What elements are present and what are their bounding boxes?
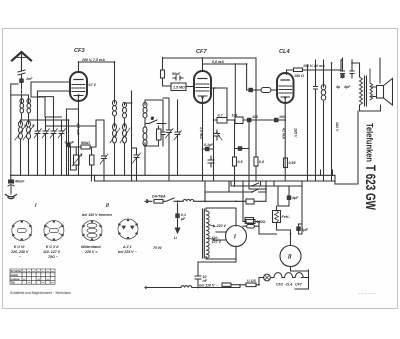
transformer top lead <box>206 208 236 226</box>
resistor U1/5 <box>240 278 264 287</box>
resistor 1k vertical <box>161 58 172 87</box>
svg-text:220 V =: 220 V = <box>84 250 98 254</box>
wire <box>211 88 227 181</box>
wire output stage <box>360 110 381 112</box>
tube CF7 <box>194 71 211 103</box>
svg-text:5μF: 5μF <box>302 228 309 232</box>
fuse <box>154 200 163 204</box>
socket I EUVI circle <box>12 221 32 241</box>
svg-text:185 V: 185 V <box>294 128 298 138</box>
transformer bottom lead <box>206 246 236 259</box>
svg-text:4,5 mA: 4,5 mA <box>76 122 80 135</box>
transformer tap 220V <box>209 225 216 228</box>
variable coil L3 <box>15 121 26 175</box>
resistor 150 box LSQ <box>246 220 255 224</box>
wire CF3 anode to IFT1 <box>79 62 115 103</box>
capacitor 0.1uF node <box>67 128 70 175</box>
capacitor 0.1uF node <box>203 147 214 150</box>
trimmer capacitor C3 <box>50 120 58 175</box>
heater chain bumps <box>271 273 304 278</box>
svg-text:Schaltbild und Abgleichwerte ·: Schaltbild und Abgleichwerte · Telefunke… <box>10 291 71 295</box>
svg-text:10k: 10k <box>232 114 239 118</box>
resistor 1.5M <box>171 83 194 91</box>
resistor 0.5M vertical 2 <box>233 120 237 181</box>
IFT1 variable core coil B <box>120 122 130 175</box>
resistor 50k <box>69 145 97 149</box>
svg-text:4μF: 4μF <box>291 196 299 200</box>
svg-text:220–240 V: 220–240 V <box>10 250 29 254</box>
svg-text:220 V: 220 V <box>216 224 227 228</box>
mains choke <box>183 199 194 201</box>
arrow ground mains <box>175 228 179 233</box>
wire junction <box>96 120 104 148</box>
capacitor 50uF <box>173 76 183 80</box>
svg-text:70 W: 70 W <box>153 246 162 250</box>
resistor 1M box <box>245 218 254 224</box>
resistor 0.5M vertical <box>145 126 161 146</box>
trimmer capacitor C8 <box>174 120 182 175</box>
coil 0.1 <box>261 88 277 93</box>
svg-text:T 623 GW: T 623 GW <box>363 165 378 210</box>
svg-text:67 V: 67 V <box>89 83 97 87</box>
capacitor 1u <box>314 85 318 92</box>
wire <box>177 100 179 120</box>
svg-text:0,8 mA: 0,8 mA <box>212 60 224 64</box>
trimmer capacitor C11 <box>163 98 173 181</box>
socket Widerstand circle <box>82 221 102 241</box>
coil bottom <box>181 286 192 288</box>
svg-text:4μ: 4μ <box>335 85 341 89</box>
output transformer core <box>365 76 367 106</box>
svg-text:150 Ω: 150 Ω <box>294 74 304 78</box>
svg-text:II: II <box>288 255 292 261</box>
top rail B+ <box>163 57 257 59</box>
svg-text:1nF: 1nF <box>26 77 33 81</box>
svg-text:A Z 1: A Z 1 <box>122 245 132 249</box>
svg-text:0,55: 0,55 <box>289 161 297 165</box>
svg-text:1,5 MΩ: 1,5 MΩ <box>173 86 185 90</box>
svg-text:bei 150 V trennen: bei 150 V trennen <box>82 213 113 217</box>
antenna coil L1 <box>20 97 24 120</box>
electrolytic 40mF <box>8 175 14 194</box>
svg-text:200 V, 7,5 mA: 200 V, 7,5 mA <box>81 58 105 62</box>
dial lamp <box>259 274 270 281</box>
variable coil L4 <box>23 121 34 175</box>
wire CF3 grid <box>31 82 79 175</box>
wire <box>277 224 303 246</box>
mains switch <box>163 198 179 201</box>
socket AZ1 circle <box>118 219 138 239</box>
bei110V box <box>222 283 240 286</box>
output transformer secondary <box>370 69 373 100</box>
svg-text:CF7: CF7 <box>196 49 207 55</box>
svg-text:DA/TBA: DA/TBA <box>152 195 166 199</box>
svg-text:FeH₂: FeH₂ <box>282 215 291 219</box>
trimmer capacitor C9 <box>215 130 223 140</box>
svg-text:CF7: CF7 <box>295 283 303 287</box>
trimmer capacitor C5 <box>100 148 108 181</box>
IFT2 secondary coil <box>143 127 147 176</box>
svg-text:127 V: 127 V <box>212 240 222 244</box>
svg-text:Tfk: Tfk <box>11 281 16 285</box>
rectifier circle I <box>226 226 247 247</box>
trimmer capacitor C2 <box>42 117 50 175</box>
wire <box>352 60 360 71</box>
IFT1 primary coil <box>113 100 117 122</box>
svg-text:μF: μF <box>180 217 186 221</box>
power transformer core <box>203 209 205 258</box>
capacitor 4uF psu <box>287 190 290 206</box>
electrolytic 4uF b <box>350 71 354 78</box>
wire CF7 anode <box>203 58 247 117</box>
svg-text:181 V: 181 V <box>335 122 339 132</box>
svg-text:1,5 mA: 1,5 mA <box>199 127 203 139</box>
capacitor C10 <box>208 156 214 167</box>
wire right column 4 <box>331 63 333 181</box>
wire grid left section <box>11 95 96 146</box>
wire <box>278 205 289 207</box>
svg-text:·· ·· ··· ·······: ·· ·· ··· ······· <box>358 292 376 296</box>
capacitor 5uF psu <box>297 224 300 234</box>
trimmer capacitor C1 <box>34 120 42 175</box>
trimmer capacitor C4 <box>58 120 66 175</box>
transformer tap 110V <box>209 238 216 241</box>
wire CF7 cathode <box>202 103 204 181</box>
mains plug terminal <box>145 200 152 203</box>
capacitor 10nF <box>247 88 261 91</box>
lower bus horizontal <box>95 175 336 181</box>
svg-text:0,1μF: 0,1μF <box>65 141 75 145</box>
wire antenna to coils <box>22 95 29 97</box>
resistor 2.5k vertical <box>71 147 95 181</box>
svg-text:bei 225 V ~: bei 225 V ~ <box>118 250 138 254</box>
svg-text:70Ω ~: 70Ω ~ <box>48 255 59 259</box>
urdox resistor Fe <box>273 206 281 230</box>
resistor 0.7M <box>214 118 232 124</box>
electrolytic 4uF a <box>341 71 345 78</box>
resistor 150 <box>287 60 343 75</box>
svg-text:100: 100 <box>252 115 258 119</box>
wire right column 1 <box>307 65 309 181</box>
IFT2 primary coil <box>143 100 147 127</box>
svg-text:110–127 V: 110–127 V <box>43 250 61 254</box>
capacitor 100pF node <box>248 118 275 121</box>
power transformer winding <box>206 211 209 258</box>
capacitor 0.1uF mains <box>176 203 179 228</box>
heater chain right side <box>291 267 309 290</box>
wire CL4 cathode <box>284 103 286 181</box>
wire mains distribution <box>204 181 206 201</box>
svg-text:CL4: CL4 <box>279 49 290 55</box>
wire <box>198 259 236 262</box>
svg-text:CL4: CL4 <box>286 283 293 287</box>
tube CF3 <box>70 72 87 101</box>
svg-text:0,8: 0,8 <box>259 160 264 164</box>
svg-text:CF3: CF3 <box>276 283 283 287</box>
svg-text:Widerstand: Widerstand <box>81 245 101 249</box>
voltage table <box>10 269 55 284</box>
output transformer primary <box>360 63 363 111</box>
antenna <box>12 52 31 71</box>
antenna series capacitor 1nF <box>18 70 25 97</box>
capacitor 10nF bottom <box>195 262 201 288</box>
svg-text:150Ω: 150Ω <box>257 220 266 224</box>
speaker <box>372 79 393 112</box>
barretter circle II <box>280 246 301 267</box>
svg-text:CF3: CF3 <box>74 48 85 54</box>
capacitor 100pF node 2 <box>275 118 286 121</box>
svg-text:bei 110 V →: bei 110 V → <box>199 284 219 288</box>
svg-text:E U X II: E U X II <box>46 245 59 249</box>
wire right column 2 <box>315 60 317 181</box>
svg-text:4μF: 4μF <box>343 85 351 89</box>
switch S <box>145 120 160 124</box>
capacitor C7 <box>160 124 166 147</box>
tube CL4 <box>277 73 294 103</box>
antenna coil L2 <box>27 97 31 120</box>
socket EUXII circle <box>44 221 64 241</box>
svg-text:40mF: 40mF <box>14 180 25 184</box>
trimmer capacitor C6 <box>132 148 141 181</box>
svg-text:50kΩ: 50kΩ <box>81 141 90 145</box>
svg-text:50μF: 50μF <box>172 72 181 76</box>
svg-text:U 1/5: U 1/5 <box>247 279 257 283</box>
resistor extra box <box>246 199 254 204</box>
resistor 0.55M vertical <box>284 158 288 168</box>
svg-text:Telefunken: Telefunken <box>365 123 375 162</box>
wire <box>131 91 133 181</box>
svg-text:0,1μF: 0,1μF <box>204 143 214 147</box>
svg-text:190 V, 20 mA: 190 V, 20 mA <box>303 64 325 68</box>
switch contacts net <box>205 183 266 201</box>
resistor 10k <box>227 117 248 124</box>
svg-text:41 mA: 41 mA <box>282 127 286 139</box>
IFT1 secondary coil <box>123 91 132 122</box>
wire top right loop <box>343 58 381 83</box>
capacitor 5uF <box>235 147 250 150</box>
svg-text:100: 100 <box>279 115 285 119</box>
wire <box>248 122 250 181</box>
main ground bus horizontal <box>11 174 335 176</box>
wire bottom mains run <box>147 285 240 288</box>
chassis ground symbol <box>6 195 17 199</box>
choke coil <box>321 60 325 181</box>
IFT1 variable core coil A <box>110 122 120 175</box>
resistor 0.8M vertical <box>254 58 258 181</box>
ground bus left vertical <box>10 84 12 175</box>
svg-text:E U VI: E U VI <box>14 245 25 249</box>
wire CF3 cathode <box>78 101 80 175</box>
wire <box>145 100 163 124</box>
